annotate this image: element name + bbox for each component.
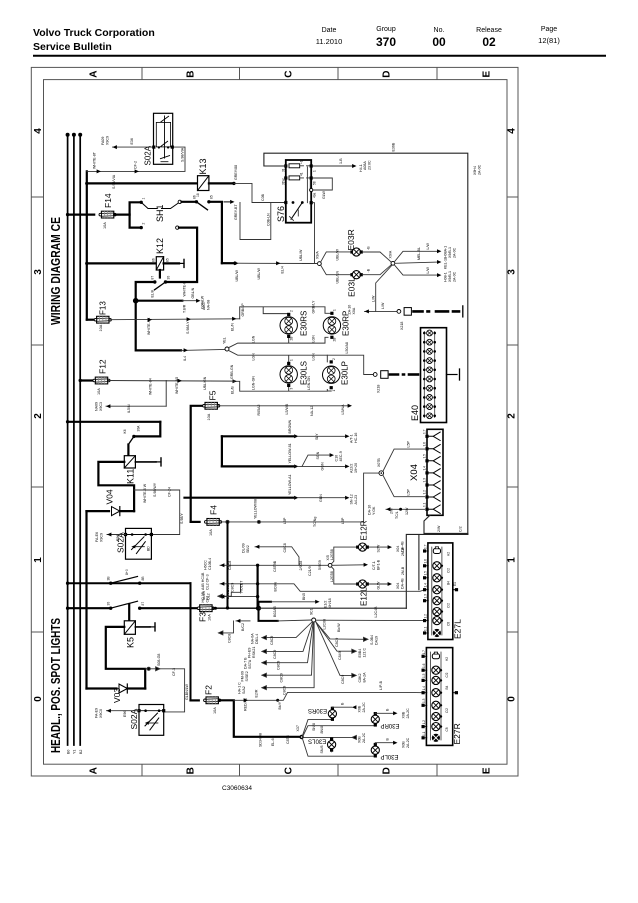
svg-text:2/W: 2/W (437, 525, 441, 532)
S76 resistor 2 (289, 176, 300, 180)
svg-text:FA-E9: FA-E9 (95, 708, 99, 718)
switch SH1 bracket (130, 202, 142, 227)
wire COB elbow to S76 (234, 183, 286, 202)
label A8C7 NA-08 (202, 300, 211, 310)
E30LP arrow labels (386, 737, 411, 748)
labels on E27L wire (323, 619, 342, 632)
right band ticks (507, 196, 518, 198)
row2 labels (248, 647, 278, 659)
svg-text:B: B (386, 738, 390, 741)
label E03R (346, 229, 356, 250)
wire thick branch right at 300.7 (136, 300, 183, 302)
svg-text:DA-4B: DA-4B (401, 578, 405, 589)
svg-text:A4B HC1B: A4B HC1B (201, 572, 205, 590)
stub labels left of E27L (401, 547, 405, 575)
svg-text:S/A2: S/A2 (242, 686, 246, 694)
svg-text:Page: Page (541, 26, 557, 33)
diode V04 (112, 507, 120, 516)
wire splice to E03R (321, 252, 353, 262)
label COB-LN (267, 213, 271, 226)
svg-text:UBL/W: UBL/W (235, 270, 239, 282)
svg-text:BC8N: BC8N (274, 582, 278, 592)
relay K12 (156, 257, 163, 270)
row2 labels (288, 443, 358, 473)
fuse F12 (93, 377, 110, 384)
svg-text:Y:GK: Y:GK (372, 506, 376, 515)
svg-text:BN5: BN5 (302, 593, 306, 600)
left band ticks (31, 196, 43, 198)
label WHITE-R (183, 281, 187, 297)
svg-text:1-B: 1-B (339, 158, 343, 164)
main power rail 2 (72, 133, 76, 745)
svg-text:IL5/N: IL5/N (127, 404, 131, 413)
X218 row2 housing (381, 371, 388, 379)
K12 pin labels (152, 258, 170, 262)
svg-text:NA09: NA09 (95, 402, 99, 411)
hub row lower jog off-page (219, 621, 234, 635)
svg-text:SLY: SLY (315, 433, 319, 440)
wire E03 feed from elbow (222, 262, 318, 265)
svg-text:2: 2 (33, 413, 44, 419)
svg-text:SN/8: SN/8 (312, 723, 316, 731)
lamp pin number labels (290, 309, 337, 392)
branch1 labels (426, 243, 457, 258)
svg-text:BF1-B: BF1-B (377, 559, 381, 570)
label CF-2 (134, 161, 138, 169)
svg-text:L2G58: L2G58 (330, 549, 334, 560)
row1 mid labels (273, 560, 322, 576)
svg-text:02: 02 (482, 35, 496, 49)
svg-text:1.7: 1.7 (422, 650, 426, 655)
label COB/LW (201, 295, 205, 309)
fuse F4 (205, 519, 222, 526)
svg-text:WHITE-84: WHITE-84 (149, 378, 153, 395)
svg-text:E30RP: E30RP (342, 311, 351, 336)
switch S02A low (139, 705, 164, 736)
headlamp mid bus upper (229, 337, 329, 348)
node to E30RS bottom (303, 719, 333, 736)
svg-text:E1/2: E1/2 (324, 601, 328, 608)
svg-text:58: 58 (313, 181, 317, 185)
svg-text:K11: K11 (126, 469, 136, 484)
E30LP top arrow (375, 741, 397, 745)
svg-text:EL/B: EL/B (231, 386, 235, 394)
svg-text:S.98/Y: S.98/Y (180, 513, 184, 524)
svg-text:23:0C: 23:0C (368, 160, 372, 170)
K11 left wire elbow (98, 462, 134, 511)
svg-text:B: B (341, 702, 345, 705)
relay K12 feed (85, 262, 156, 265)
svg-text:F12: F12 (98, 359, 108, 374)
X04 pin labels (423, 429, 427, 507)
hub fan right row1 (315, 621, 368, 641)
F4 line labels (254, 499, 346, 527)
svg-text:L2C08: L2C08 (323, 619, 327, 630)
label K11 (126, 469, 136, 484)
label E30LP (341, 361, 350, 385)
label S02A (144, 145, 153, 165)
svg-text:30: 30 (107, 602, 111, 606)
S02A pins (152, 146, 174, 149)
wire S98/WY thin (134, 490, 180, 535)
svg-text:X0A: X0A (352, 307, 356, 314)
main bottom feed line (66, 607, 111, 610)
label V03 (112, 688, 122, 703)
svg-text:DA-7 B: DA-7 B (244, 657, 248, 669)
S76 top wire with arrow (313, 164, 357, 168)
svg-text:E30RS: E30RS (308, 707, 327, 713)
svg-text:49a: 49a (313, 192, 317, 198)
E27R pin number labels (422, 650, 426, 736)
row4 labels (241, 671, 284, 682)
svg-text:87: 87 (141, 602, 145, 606)
svg-text:3B: 3B (107, 576, 111, 581)
svg-text:X9/B-1: X9/B-1 (448, 271, 452, 282)
wire SH1 lower to K12 contact (166, 228, 198, 282)
node row E30LS (304, 735, 357, 739)
E30RP top arrow (375, 711, 397, 715)
svg-text:1.5: 1.5 (424, 571, 428, 576)
E12R right arrow (369, 545, 392, 549)
label L9GB 2 (330, 571, 334, 582)
S76 pins right (310, 164, 313, 204)
svg-text:E30LP: E30LP (380, 753, 398, 759)
bottom band ticks (141, 764, 143, 776)
label E1/2 4H/18 (324, 598, 333, 608)
svg-text:L5/WB: L5/WB (285, 403, 289, 414)
row3 jog off-page wire (218, 584, 241, 598)
label E-96 low (123, 711, 127, 717)
svg-text:S.98/LY: S.98/LY (186, 321, 190, 334)
wire V03 to K5 elbow (127, 687, 145, 689)
svg-text:DA19: DA19 (375, 636, 379, 645)
label WHITE-84 (149, 378, 153, 395)
lamp E30RP small (371, 712, 379, 727)
label 8D2A5 right (374, 606, 378, 618)
connector E40 (421, 328, 447, 423)
svg-text:X0B: X0B (358, 705, 362, 712)
wire SH1 to K13 contact (182, 201, 197, 203)
K13 pin labels (193, 195, 214, 199)
svg-text:L/W: L/W (372, 295, 376, 302)
svg-text:18: 18 (196, 193, 200, 197)
svg-text:E36: E36 (130, 138, 134, 144)
svg-text:L50/A8: L50/A8 (345, 342, 349, 353)
svg-text:F4: F4 (209, 505, 219, 515)
header rule (33, 55, 606, 57)
svg-text:L5/NA: L5/NA (341, 404, 345, 415)
svg-text:X9/A: X9/A (389, 250, 393, 258)
label K5 (126, 637, 136, 648)
S76 pin labels (282, 160, 317, 198)
switch unit S76 (286, 160, 311, 223)
svg-text:LGN-GN: LGN-GN (252, 376, 256, 390)
label E30RP small (380, 722, 399, 728)
label S.98/Y (180, 513, 184, 524)
row3 labels (244, 657, 281, 670)
branch3 labels (426, 267, 457, 282)
headlamp E30RP (323, 312, 340, 339)
svg-text:L5P: L5P (407, 489, 411, 496)
svg-text:L5P: L5P (407, 441, 411, 448)
svg-text:HEADL., POS. SPOT LIGHTS: HEADL., POS. SPOT LIGHTS (49, 618, 63, 753)
E27R right ground pin (453, 691, 458, 694)
svg-text:Bk/W: Bk/W (337, 623, 341, 632)
splice to X04 pin 1.6 (383, 449, 425, 471)
X04 pins (425, 435, 428, 511)
svg-text:4H/18: 4H/18 (328, 598, 332, 608)
label 8N/8 (320, 726, 324, 734)
svg-text:H6CC: H6CC (204, 560, 208, 570)
V03 feed (87, 687, 117, 689)
svg-text:C8C9: C8C9 (280, 673, 284, 682)
svg-text:SB/2: SB/2 (246, 545, 250, 553)
mid arrow labels (372, 559, 381, 570)
svg-text:Service Bulletin: Service Bulletin (33, 41, 112, 53)
label F4 (209, 505, 219, 515)
svg-text:CF2: CF2 (206, 596, 210, 603)
svg-text:UBL/W: UBL/W (299, 249, 303, 261)
svg-text:A4-23: A4-23 (354, 495, 358, 505)
label B02A5 (273, 606, 277, 617)
F2 elbow down (219, 700, 300, 737)
svg-text:CL2 CF-3: CL2 CF-3 (206, 574, 210, 590)
label S76 (276, 206, 286, 222)
svg-text:S/SE2: S/SE2 (245, 671, 249, 681)
label GRB-GN (230, 364, 234, 379)
svg-text:3: 3 (33, 269, 44, 275)
svg-text:1.4: 1.4 (424, 583, 428, 588)
svg-text:-B: -B (367, 268, 371, 272)
svg-text:C/2: C/2 (447, 603, 451, 608)
svg-text:1: 1 (333, 309, 337, 311)
svg-text:2A-0C: 2A-0C (478, 164, 482, 175)
wire arrow W1b (135, 169, 139, 173)
arrow on F13 wire (148, 318, 152, 322)
E27L pin dots right (441, 565, 443, 622)
E27R pins left (422, 655, 427, 740)
svg-text:0: 0 (507, 696, 518, 702)
label EL/8 (151, 290, 155, 297)
upper branch labels (242, 543, 288, 553)
lamp E30LS small (328, 738, 336, 752)
E27L pins left (423, 549, 428, 634)
svg-text:A08A: A08A (363, 161, 367, 170)
row1 labels (288, 419, 358, 443)
svg-text:C8C9: C8C9 (277, 661, 281, 670)
svg-text:SS7A: SS7A (248, 659, 252, 669)
wire F4 feed (191, 521, 200, 523)
svg-text:FH-E9: FH-E9 (248, 648, 252, 658)
S02A mid left arrow (107, 533, 126, 537)
SH1 output contact circle (178, 200, 181, 203)
wire X218 row2 feed from lamp bus (327, 355, 373, 374)
svg-text:2M-B: 2M-B (401, 566, 405, 575)
headlamp E30LP (323, 360, 340, 389)
lamp E30RS small (328, 707, 336, 721)
svg-text:B4: B4 (445, 685, 449, 689)
svg-text:LGN: LGN (312, 335, 316, 343)
svg-text:C21/9: C21/9 (308, 566, 312, 576)
svg-text:BROWN: BROWN (288, 419, 292, 433)
svg-text:S08-G8: S08-G8 (157, 654, 161, 666)
svg-text:GLW: GLW (377, 581, 381, 590)
svg-text:S-0B4: S-0B4 (370, 635, 374, 645)
lamp E03L (350, 271, 362, 279)
svg-text:E30LS: E30LS (300, 361, 309, 385)
K13 coil output wire GREY/88 (209, 182, 236, 185)
fuse F12 feed (79, 379, 95, 382)
svg-text:YELLOW-81: YELLOW-81 (288, 443, 292, 463)
svg-text:V03: V03 (112, 688, 122, 703)
svg-text:V04: V04 (105, 489, 115, 504)
E27L cap symbol (433, 547, 440, 554)
top band ticks (141, 67, 143, 79)
label X07A (389, 250, 393, 258)
wire E03R return (363, 252, 392, 262)
svg-text:C8C9: C8C9 (270, 636, 274, 645)
header block (33, 26, 606, 56)
label F13 (99, 301, 108, 315)
label S08-G8 (157, 654, 161, 666)
svg-text:UBL/W: UBL/W (257, 268, 261, 280)
svg-text:X0B: X0B (402, 711, 406, 718)
svg-text:F14: F14 (103, 193, 113, 208)
svg-text:8A-2A: 8A-2A (363, 672, 367, 683)
label 3- codes (367, 246, 371, 273)
svg-text:Date: Date (322, 27, 337, 34)
E27L right ground pin (453, 588, 458, 591)
svg-text:C/2: C/2 (445, 708, 449, 713)
svg-text:K6: K6 (123, 429, 127, 433)
label VIOLET (240, 580, 244, 594)
relay K5 (124, 621, 135, 635)
S76 loop wire GLW (313, 178, 333, 190)
label GREY-BT (234, 204, 238, 220)
svg-text:CF-24: CF-24 (168, 487, 172, 497)
svg-text:C8: C8 (445, 727, 449, 731)
switch S02A top (154, 113, 173, 164)
S76 resistor 1 (289, 164, 300, 168)
rail terminal labels (66, 750, 83, 754)
label SN/8 low (320, 746, 324, 754)
upper connector rows: row1 E12 feed (220, 563, 328, 567)
svg-text:1.7: 1.7 (424, 544, 428, 549)
label E12R (360, 520, 369, 540)
node X37 (299, 735, 303, 739)
row1 left labels (204, 558, 233, 570)
feed rail 4 upper segment (86, 171, 88, 319)
wire F12 elbow down (165, 381, 167, 407)
label SH1 (155, 204, 165, 222)
svg-text:GBL/N: GBL/N (191, 287, 195, 298)
branch BN5 arrow (271, 600, 320, 604)
svg-text:FA-E6: FA-E6 (95, 532, 99, 542)
svg-text:C8C9: C8C9 (273, 650, 277, 659)
wire S76 49a to splice (303, 203, 318, 264)
svg-text:EL/8: EL/8 (151, 290, 155, 297)
arrow on F13 wire 2 (187, 317, 191, 321)
svg-text:YEL: YEL (223, 337, 227, 344)
svg-text:GRB/LP: GRB/LP (241, 303, 245, 317)
svg-text:H2: H2 (447, 552, 451, 556)
svg-text:X9C0: X9C0 (99, 709, 103, 718)
arrow marker on main line (197, 606, 201, 610)
lamp E12R (356, 543, 369, 551)
svg-text:B: B (386, 708, 390, 711)
label S02A low (129, 708, 139, 729)
fuse F5 (203, 402, 220, 409)
svg-text:C8T8: C8T8 (286, 735, 290, 744)
riser F4 to F3 (226, 522, 229, 610)
right row3 labels (341, 672, 367, 684)
svg-text:2A-2C: 2A-2C (362, 702, 366, 713)
arrow into lamp bus (232, 317, 236, 321)
svg-text:1.1: 1.1 (423, 502, 427, 507)
label E40 (410, 405, 420, 421)
K12 relay coil lower stub (159, 270, 161, 278)
right row1 labels (335, 635, 379, 647)
svg-text:2B: 2B (290, 337, 294, 341)
main line continues right (259, 607, 407, 609)
E27L right code labels (447, 552, 451, 626)
svg-text:T.8/R: T.8/R (183, 304, 187, 313)
lamp E03R (350, 248, 362, 256)
fuse F13 (94, 316, 111, 323)
svg-text:FA09: FA09 (101, 137, 105, 145)
label 2/N (390, 508, 394, 514)
hub fan row5 (262, 622, 314, 690)
label WHITE-A5 (175, 377, 179, 394)
label FA-E9 X9C0 (95, 708, 104, 718)
svg-text:E40: E40 (410, 405, 420, 421)
svg-text:L2G58: L2G58 (330, 571, 334, 582)
fuse F14 (99, 211, 116, 218)
relay K13 coil feed wire (85, 182, 197, 185)
svg-text:GLW: GLW (322, 190, 326, 199)
E27L internal bus (432, 547, 442, 635)
label F5 (208, 390, 218, 400)
label WHITE-8T (93, 151, 97, 169)
wire NA09 off-page left (106, 404, 166, 408)
wire arrow W1a (97, 169, 101, 173)
svg-text:31W: 31W (282, 178, 286, 185)
svg-text:SN-12: SN-12 (350, 494, 354, 504)
node to E30LP bottom bus (303, 739, 376, 756)
label WHITE-R4 (147, 318, 151, 335)
headlamp E30LS (280, 362, 297, 387)
svg-text:S76: S76 (276, 206, 286, 222)
svg-text:R05A2: R05A2 (257, 405, 261, 416)
K5 switch contacts on main line (109, 601, 141, 610)
label E1 (453, 582, 457, 586)
splice drop to X218 row1 (376, 265, 393, 311)
svg-text:SD34/08: SD34/08 (259, 733, 263, 747)
label 18 (196, 193, 200, 197)
svg-text:10A: 10A (97, 388, 101, 395)
branch2 labels (417, 247, 448, 269)
svg-text:10A: 10A (207, 413, 211, 420)
svg-text:1.5: 1.5 (422, 673, 426, 678)
label FA-E6 X9C9 (95, 532, 104, 542)
svg-text:2: 2 (142, 223, 146, 225)
svg-text:K5: K5 (126, 637, 136, 648)
svg-text:L5P: L5P (341, 517, 345, 524)
K12 output thin continuation (181, 348, 225, 352)
hub E12 (328, 563, 332, 567)
LGN labels (252, 335, 316, 390)
svg-text:BD: BD (147, 546, 151, 551)
